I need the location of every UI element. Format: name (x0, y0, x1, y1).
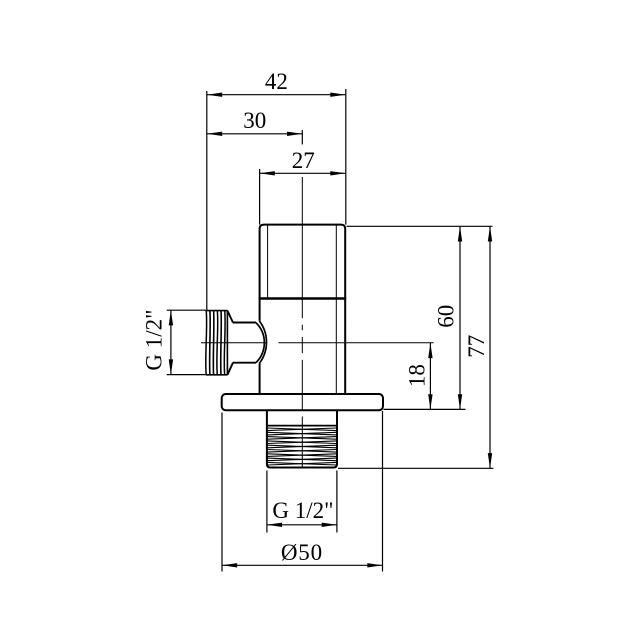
svg-text:30: 30 (243, 108, 266, 133)
svg-text:60: 60 (433, 305, 458, 328)
svg-text:G 1/2": G 1/2" (272, 498, 333, 523)
svg-text:27: 27 (292, 148, 315, 173)
svg-text:Ø50: Ø50 (281, 540, 323, 565)
svg-text:18: 18 (404, 364, 429, 387)
svg-text:G 1/2": G 1/2" (141, 309, 166, 370)
svg-text:77: 77 (464, 335, 489, 358)
svg-text:42: 42 (265, 69, 288, 94)
